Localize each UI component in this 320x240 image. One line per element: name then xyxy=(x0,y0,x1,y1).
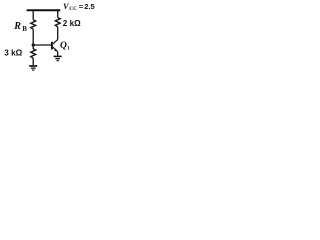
svg-text:=: = xyxy=(79,2,84,11)
svg-text:2 kΩ: 2 kΩ xyxy=(63,19,81,28)
svg-text:Q: Q xyxy=(60,41,67,51)
svg-text:CC: CC xyxy=(69,6,77,12)
svg-text:B: B xyxy=(22,26,27,33)
svg-text:R: R xyxy=(13,21,21,32)
svg-text:2.5: 2.5 xyxy=(84,2,94,11)
svg-text:3 kΩ: 3 kΩ xyxy=(4,48,22,57)
svg-text:1: 1 xyxy=(67,46,70,52)
